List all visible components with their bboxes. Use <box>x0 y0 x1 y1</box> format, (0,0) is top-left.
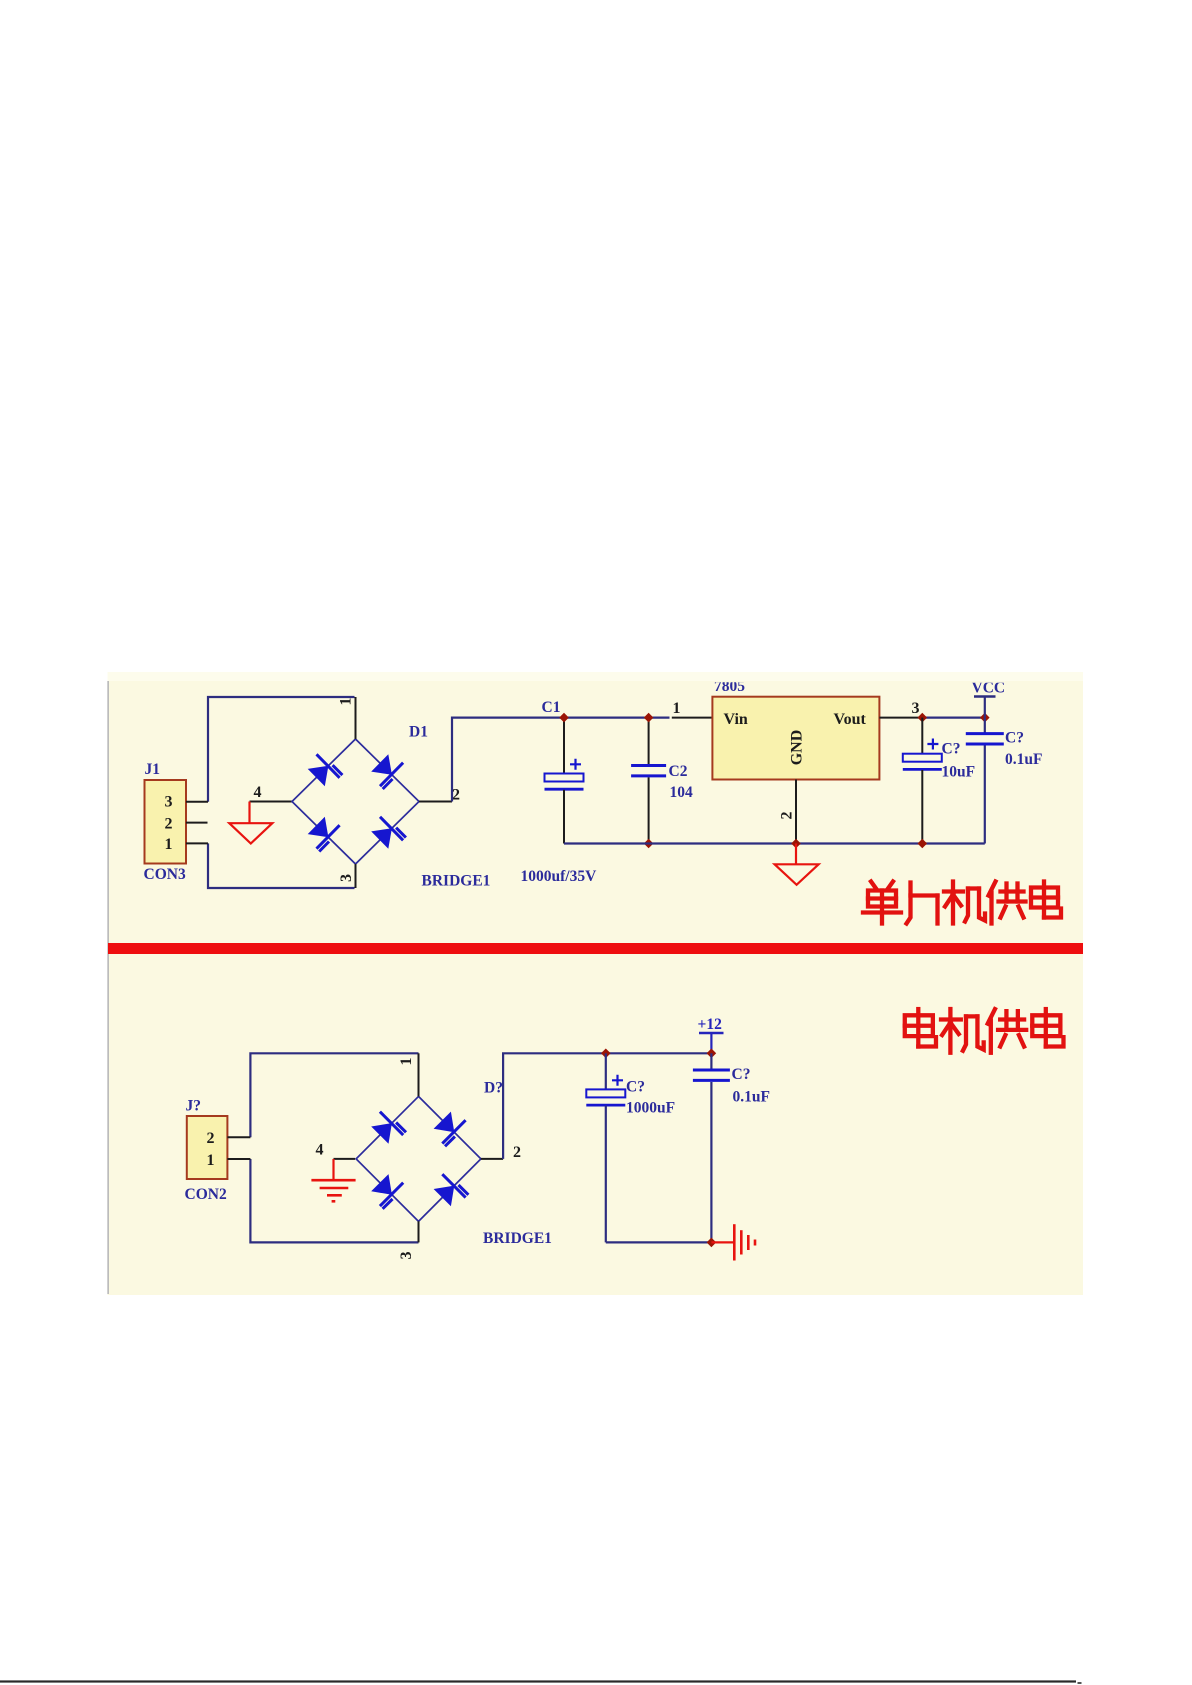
svg-text:J?: J? <box>186 1098 202 1115</box>
7805 pin 3 stub <box>879 717 922 719</box>
svg-text:4: 4 <box>316 1142 324 1159</box>
bridge rectifier D? BRIDGE1 <box>356 1096 481 1221</box>
node junction at C1 top <box>559 713 569 723</box>
bridge D1 pin 1 stub <box>355 697 357 739</box>
svg-text:CON2: CON2 <box>185 1186 227 1203</box>
svg-text:2: 2 <box>207 1130 215 1147</box>
page bottom rule <box>0 1680 1076 1682</box>
red divider line <box>108 943 1083 954</box>
capacitor C? 1000uF electrolytic plates <box>586 1089 625 1097</box>
VCC power symbol stem <box>984 697 986 718</box>
bridge D1 pin 3 stub <box>355 864 357 888</box>
capacitor C? 0.1uF (motor) top lead <box>710 1053 712 1070</box>
svg-text:C?: C? <box>626 1079 645 1096</box>
wire bus C1 to C2 node <box>564 716 649 718</box>
svg-text:D?: D? <box>484 1080 503 1097</box>
svg-text:+12: +12 <box>698 1016 723 1033</box>
capacitor C? 1000uF top lead <box>605 1053 607 1089</box>
node junction at 10uF bottom <box>918 839 928 849</box>
bridge D1 pin 2 stub <box>419 801 452 803</box>
svg-text:BRIDGE1: BRIDGE1 <box>422 873 491 890</box>
power ground stem at bridge pin 4 <box>248 802 250 824</box>
node junction at VCC / 0.1uF cap <box>980 713 990 723</box>
capacitor C1 top lead <box>563 718 565 774</box>
capacitor C? 10uF polarity plus <box>927 739 938 750</box>
svg-text:1000uF: 1000uF <box>626 1100 675 1117</box>
svg-text:1: 1 <box>165 836 173 853</box>
svg-text:GND: GND <box>789 730 806 766</box>
svg-text:3: 3 <box>912 700 920 717</box>
capacitor C1 electrolytic plates <box>545 774 584 782</box>
svg-text:2: 2 <box>513 1144 521 1161</box>
wire from bridge D? pin 2 up to +12 bus <box>503 1053 711 1159</box>
capacitor C? 0.1uF (motor) ceramic plates <box>693 1069 730 1072</box>
diode c (left to bottom) <box>308 817 329 838</box>
node junction at C2 bottom <box>644 839 654 849</box>
capacitor C? 1000uF polarity plus <box>612 1075 623 1086</box>
power ground triangle below 7805 <box>775 864 819 885</box>
bridge D1 pin 4 wire to left vertex <box>250 801 293 803</box>
regulator U1 7805 box <box>712 697 879 780</box>
svg-text:3: 3 <box>398 1252 415 1260</box>
bottom wire 1000uF to earth node <box>606 1241 712 1243</box>
7805 pin 1 stub <box>672 717 713 719</box>
wire from J1 pin1 down and right to bridge pin 3 <box>208 843 355 888</box>
7805 pin 2 stub <box>795 780 797 844</box>
node junction at earth ground <box>707 1238 717 1248</box>
capacitor C? 10uF bottom lead <box>921 770 923 844</box>
diode a (lower-left to top) <box>308 766 329 787</box>
svg-text:3: 3 <box>165 794 173 811</box>
wire 7805 Vout node to VCC node <box>922 716 985 718</box>
svg-text:C?: C? <box>942 741 961 758</box>
capacitor C? 0.1uF bottom lead <box>984 746 986 844</box>
wire from bridge pin 2 up to node bus <box>452 718 564 802</box>
node junction at 1000uF top <box>601 1049 611 1059</box>
diode d (bottom to right) <box>434 1186 455 1207</box>
capacitor C? 1000uF bottom lead <box>605 1106 607 1243</box>
connector J? box <box>187 1116 228 1179</box>
svg-text:C?: C? <box>732 1066 751 1083</box>
svg-text:4: 4 <box>254 784 262 801</box>
diode a (lower-left to top) <box>371 1123 392 1144</box>
capacitor C2 bottom lead <box>648 777 650 843</box>
diode b (top to right) <box>434 1112 455 1133</box>
capacitor C2 top lead <box>648 718 650 765</box>
diode c (left to bottom) <box>371 1174 392 1195</box>
bridge D? pin 4 wire to left vertex <box>334 1158 356 1160</box>
svg-text:J1: J1 <box>145 761 161 778</box>
power ground triangle at bridge pin 4 <box>229 823 272 843</box>
bridge D? pin 2 stub <box>481 1158 503 1160</box>
power ground stem below 7805 <box>795 844 797 865</box>
J1 pin 3 stub <box>186 801 208 803</box>
VCC net label (clipped) <box>972 680 1006 697</box>
svg-text:1: 1 <box>398 1058 415 1066</box>
earth ground bars <box>733 1224 736 1260</box>
svg-text:1: 1 <box>207 1152 215 1169</box>
capacitor C2 ceramic plates <box>631 764 666 767</box>
bridge D? pin 3 stub <box>418 1221 420 1242</box>
diode b (top to right) <box>371 754 392 775</box>
svg-text:C?: C? <box>1005 730 1024 747</box>
svg-text:1: 1 <box>673 700 681 717</box>
svg-text:CON3: CON3 <box>144 866 186 883</box>
capacitor C? 0.1uF top lead <box>984 718 986 734</box>
+12 power symbol bar <box>699 1032 724 1035</box>
svg-text:1: 1 <box>338 698 355 706</box>
wire C2 node to 7805 Vin <box>649 716 670 718</box>
svg-text:Vin: Vin <box>724 711 748 728</box>
capacitor C? 0.1uF (motor) bottom lead <box>710 1082 712 1242</box>
svg-text:2: 2 <box>779 812 796 820</box>
ground bus wire <box>564 842 985 844</box>
wire from J? pin1 down and right to bridge pin 3 <box>250 1159 418 1242</box>
svg-text:C2: C2 <box>669 763 688 780</box>
signal ground stem at bridge pin 4 <box>332 1159 334 1180</box>
title text: dan pian ji gong dian (MCU power) <box>863 882 901 924</box>
svg-text:104: 104 <box>670 784 694 801</box>
svg-text:Vout: Vout <box>834 711 867 728</box>
J1 pin 1 stub <box>186 842 208 844</box>
earth ground wire <box>711 1241 734 1243</box>
svg-text:2: 2 <box>452 787 460 804</box>
svg-text:0.1uF: 0.1uF <box>733 1089 770 1106</box>
svg-text:10uF: 10uF <box>942 764 976 781</box>
signal ground bars <box>311 1179 355 1182</box>
diode d (bottom to right) <box>371 828 392 849</box>
svg-text:3: 3 <box>338 874 355 882</box>
svg-text:2: 2 <box>165 816 173 833</box>
node junction at 7805 GND pin <box>791 839 801 849</box>
J? pin 2 stub <box>227 1136 250 1138</box>
connector J1 box <box>145 780 187 864</box>
node junction at C2 top <box>644 713 654 723</box>
J? pin 1 stub <box>227 1158 250 1160</box>
bridge D? pin 1 stub <box>418 1053 420 1096</box>
capacitor C1 polarity plus <box>570 759 581 770</box>
svg-text:1000uf/35V: 1000uf/35V <box>521 868 598 885</box>
+12 power symbol stem <box>710 1034 712 1054</box>
capacitor C1 bottom lead <box>563 790 565 844</box>
capacitor C? 10uF electrolytic plates <box>903 754 942 762</box>
capacitor C? 10uF top lead <box>921 718 923 754</box>
VCC power symbol bar <box>974 695 996 698</box>
svg-text:BRIDGE1: BRIDGE1 <box>483 1230 552 1247</box>
svg-text:C1: C1 <box>542 699 561 716</box>
wire from J1 pin3 up and right to bridge pin 1 <box>208 697 355 802</box>
J1 pin 2 stub <box>186 822 208 824</box>
node junction at +12 / 0.1uF top <box>707 1049 717 1059</box>
wire from J? pin2 up and right to bridge pin 1 <box>250 1053 418 1137</box>
node junction at pin3 / 10uF cap <box>918 713 928 723</box>
svg-text:D1: D1 <box>409 724 428 741</box>
bridge rectifier D1 BRIDGE1 <box>292 739 419 864</box>
title text: dian ji gong dian (motor power) <box>905 1009 936 1046</box>
7805 designator label (clipped) <box>714 678 745 695</box>
capacitor C? 0.1uF ceramic plates <box>966 732 1004 735</box>
svg-text:0.1uF: 0.1uF <box>1005 751 1042 768</box>
